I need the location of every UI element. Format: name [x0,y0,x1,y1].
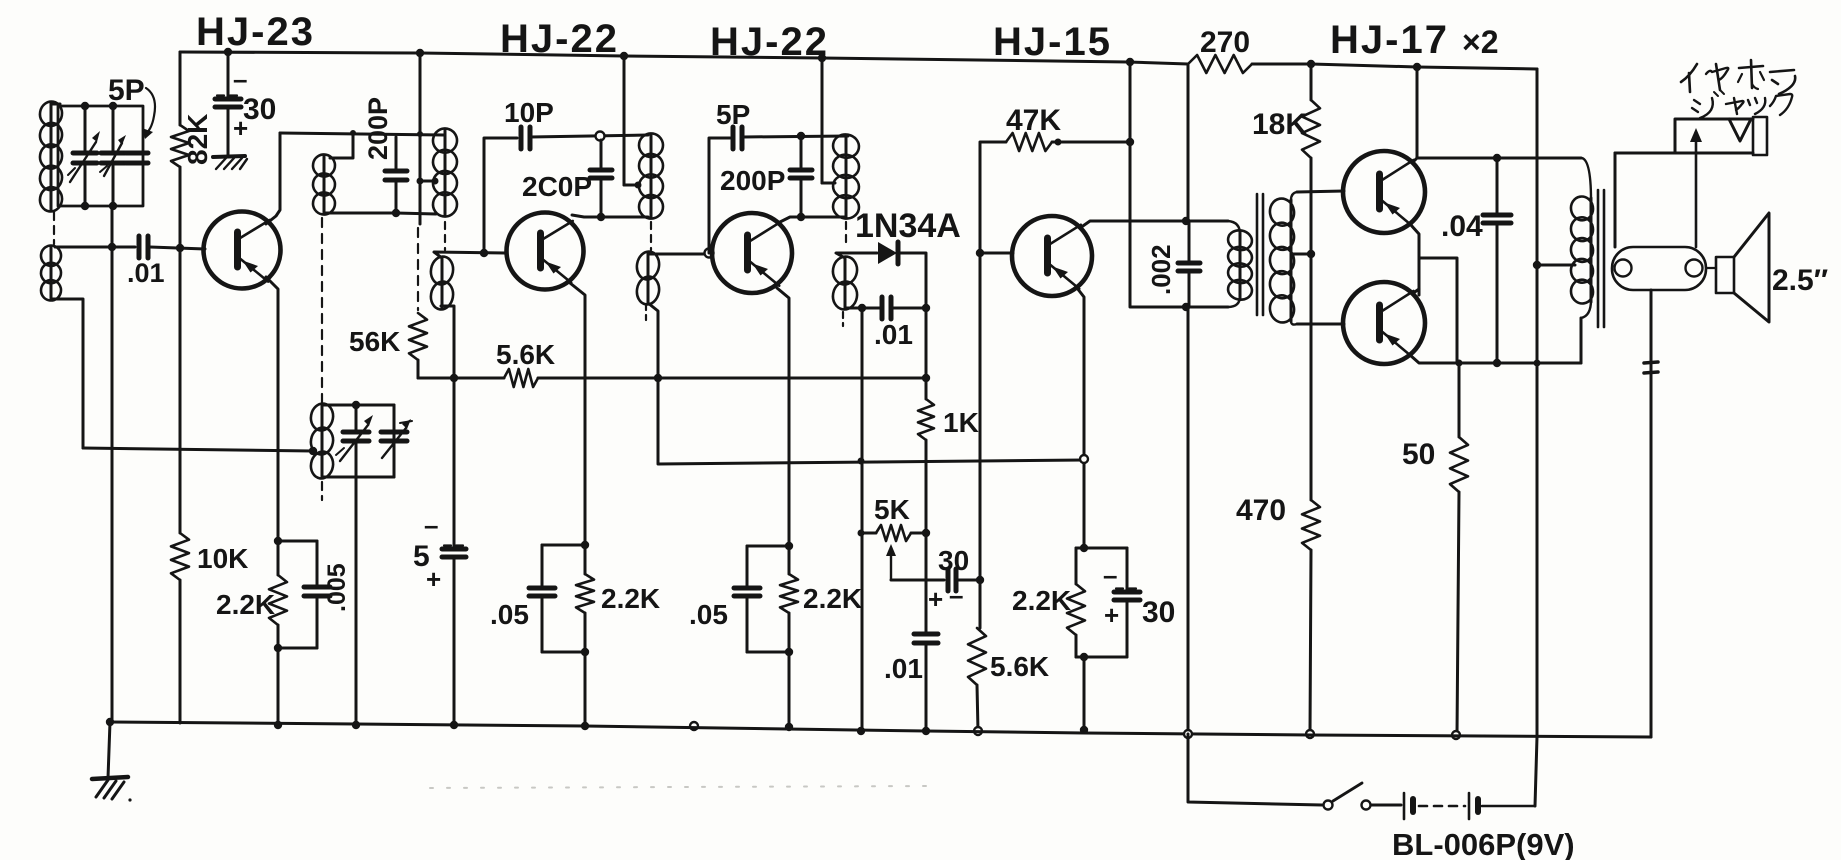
wire T4 base line down [979,580,982,628]
wire det return down [861,308,864,731]
node bracket1 top [274,537,282,545]
label 1K [943,407,979,438]
wire B line vertical [1536,69,1539,737]
wire Q6 collector up [1412,289,1419,294]
resistor R3 2.2K [269,541,287,648]
IFT2 below dashes [645,304,647,320]
variable capacitor VC3 [343,405,369,477]
svg-text:2.5″: 2.5″ [1772,264,1828,297]
speaker driver box [1716,257,1734,293]
wire 10K to bottom rail [179,580,182,723]
label 47K [1006,104,1061,137]
label .002 rotated [1146,244,1176,295]
svg-text:200P: 200P [720,165,785,196]
label HJ-17x2 [1330,18,1498,62]
transistor T3 HJ-22 [712,213,792,293]
label 82K rotated [182,114,213,165]
ring 470 rail [1306,730,1314,738]
label .01 C12 [874,319,913,350]
wire bracket1 to rail [277,648,280,725]
wire ground stem [108,722,110,778]
svg-text:.04: .04 [1441,210,1483,243]
resistor R4 56K [409,313,427,360]
svg-text:–: – [424,510,438,540]
svg-text:2.2K: 2.2K [803,583,862,614]
svg-text:+: + [1104,600,1119,630]
wire 5P to IFT3 top [743,136,848,137]
label plus C15 [1104,600,1119,630]
svg-text:1N34A: 1N34A [855,207,961,245]
label 200P C10 [720,165,785,196]
label HJ-23 [196,10,315,54]
ring junction T3 base 5P node [705,249,714,258]
svg-text:–: – [233,64,247,94]
resistor R8 1K [918,378,934,440]
node volume ground [857,727,865,735]
label 50 [1402,438,1435,471]
wire T2 collector to IFT2 [572,215,648,217]
wire T3 collector to IFT3 [780,217,845,222]
node bracket4 bottom [1080,653,1088,661]
label minus C15 [1103,560,1117,590]
label minus C5 [424,510,438,540]
svg-text:HJ-22: HJ-22 [710,20,829,64]
battery BT1 BL-006P [1404,793,1535,819]
svg-text:10K: 10K [197,543,248,574]
variable capacitor VC4 [381,432,407,441]
transistor T4 HJ-15 [1012,216,1092,296]
node rail Q5 [1413,63,1421,71]
label 10P [504,97,554,128]
svg-text:200P: 200P [363,97,393,160]
wire rail to 18K [1310,64,1313,100]
capacitor C6 10P [521,127,530,149]
node rail IFT3 [818,54,826,62]
wire 47K to supply line [1052,141,1130,144]
node C10 bottom [797,213,805,221]
capacitor C14 .01 inline [914,533,938,731]
wire collector top horizontal [280,133,444,135]
label 2.5 inch [1772,264,1828,297]
node bracket4 rail [1080,726,1088,734]
svg-text:2.2K: 2.2K [1012,585,1071,616]
oscillator coil L4 [309,402,335,480]
wire Q5 collector up [1412,67,1417,163]
node C10 top [797,132,805,140]
label plus C13 [928,584,943,614]
capacitor C9 5P [733,127,742,149]
output transformer secondary [1612,247,1706,290]
node bracket3 top [785,542,793,550]
label 470 [1236,494,1286,527]
svg-text:30: 30 [1142,596,1175,629]
wire T4 collector up [1080,221,1228,228]
label 270 [1200,26,1250,59]
wire IFT2 sec bottom down [648,303,658,378]
svg-text:5K: 5K [874,494,910,525]
wire jog down to osc feedback coil [330,133,353,158]
wire IFT2 sec top to T3 base [648,253,712,256]
wire secondary top to Q5 base [1297,191,1344,192]
ring emitter mid junction [1080,455,1088,463]
svg-text:HJ-17: HJ-17 [1330,18,1449,62]
ring 50 rail [1452,731,1460,739]
node bracket2 top [581,541,589,549]
wire bottom rail [110,722,1651,737]
wire AGC rail right part [538,377,927,380]
node rail IFT1 [416,49,424,57]
label .05 C8 [490,599,529,630]
wire T2 emitter down [570,283,585,545]
node IFT1 tap [417,178,439,185]
IFT1 primary coil [431,127,459,219]
variable capacitor VC4 arrow [382,419,412,458]
driver transformer core [1257,194,1263,315]
wire secondary to speaker link [1706,267,1716,269]
wire C5 to rail [453,559,456,725]
wire diode to corner [900,253,926,308]
svg-text:–: – [949,580,963,610]
label jack katakana [1692,90,1792,118]
wire T4 base line down2 [979,253,982,580]
wire battery branch below rail [1188,734,1322,805]
node emitter B line [1534,360,1541,367]
wire T2 base up [484,138,517,253]
IFT2 secondary coil [635,250,662,306]
antenna coil L1 primary [38,100,64,213]
node center tap 18K line [1307,250,1315,258]
IFT2 primary coil [637,131,665,220]
wire B line battery [1535,737,1537,806]
node bracket4 top [1080,544,1088,552]
driver transformer T5 secondary [1268,192,1297,325]
wire osc tap horizontal [83,448,313,451]
wire Q5 emitter down [1410,224,1419,295]
label minus C2 [233,64,247,94]
label plus C5 [426,564,441,594]
node pot left [858,530,865,537]
wire 470 to rail [1310,550,1311,734]
svg-text:2C0P: 2C0P [522,171,592,202]
node C5 rail [450,721,458,729]
emitter bracket4 bottom [1076,656,1127,659]
speaker return tick marks [1644,362,1658,373]
osc tank box bottom [322,476,394,479]
label 18K [1252,108,1307,141]
node det bottom right [922,304,930,312]
earphone jack tip contact [1729,119,1751,141]
label HJ-22 second [710,20,829,64]
node IFT2 tap [635,182,642,189]
wire 5P branch [709,138,730,253]
IFT1 secondary coil [429,255,456,311]
label 2.2K R6 [601,583,660,614]
resistor R13 470 [1302,500,1320,550]
capacitor C5 5 electrolytic [442,546,466,558]
dashed gang tail below osc coil [321,482,323,500]
node C17 top [1493,154,1501,162]
wire speaker return down [1650,290,1653,737]
wire jack to secondary left [1614,153,1617,247]
node 200P bottom [392,209,400,217]
svg-text:.05: .05 [689,599,728,630]
emitter bracket1 bottom [278,647,317,650]
wire battery branch down [1187,64,1190,221]
label 2.2K R3 [216,589,275,620]
svg-text:.002: .002 [1146,244,1176,295]
label 5.6K R9 [990,651,1049,682]
svg-text:82K: 82K [182,114,213,165]
wire AGC rail horizontal [418,377,504,380]
capacitor C10 200P [790,136,812,217]
capacitor C3 200P [385,137,407,213]
node antenna ground leg junction [108,243,116,251]
label 56K [349,326,400,357]
wire L2 bottom to down lead [51,299,83,448]
svg-text:50: 50 [1402,438,1435,471]
resistor R11 2.2K [1067,548,1085,657]
emitter bracket2 bottom [542,651,585,654]
resistor 270 inline [1188,55,1252,73]
wire C13 to T4 base line [957,579,980,582]
node 47K tick [1055,139,1062,146]
node T5 primary bottom cap [1182,303,1190,311]
wire antenna secondary to C1 [55,246,135,249]
label 5.6K R5 [496,339,555,370]
svg-text:2.2K: 2.2K [216,589,275,620]
node sec2 AGC [654,374,662,382]
node AGC rail right end [922,374,930,382]
svg-text:56K: 56K [349,326,400,357]
node rail supply line [1126,58,1134,66]
wire tap down to 470 [1310,254,1313,500]
resistor R6 2.2K [576,545,594,652]
node VC3 top [352,401,360,409]
capacitor C17 .04 [1483,158,1511,363]
tuning box frame [58,106,143,206]
node bracket1 bottom [274,644,282,652]
label .05 C11 [689,599,728,630]
transistor T1 HJ-23 [204,212,281,289]
label 200P C7 [522,171,592,202]
wire emitter link to down lead [1419,258,1457,363]
node pot right [922,529,930,537]
capacitor C7 200P [590,140,612,217]
wire T1 emitter down [266,277,278,541]
label 30 C2 [243,93,276,126]
node T5 primary top cap [1182,217,1190,225]
transistor Q5 HJ-17 [1343,151,1425,233]
capacitor C8 .05 [529,545,555,652]
node det return volume [858,458,865,465]
wire R9 to rail [977,685,978,731]
wire bracket4 to rail [1083,657,1086,730]
svg-text:BL-006P(9V): BL-006P(9V) [1392,827,1575,860]
label 5 C5 [413,540,430,573]
IFT3 tap wire [822,182,835,185]
svg-text:18K: 18K [1252,108,1307,141]
trimmer capacitor 5P plates [126,153,148,163]
wire to IFT1 bottom [396,213,436,214]
label 10K [197,543,248,574]
ground symbol C2 [213,156,247,169]
transistor T2 HJ-22 [507,213,584,290]
node bracket2 rail [581,722,589,730]
curved arrow by 5P [142,88,155,139]
label BL-006P 9V [1392,827,1575,860]
label plus C2 [233,113,248,143]
resistor R12 18K [1302,100,1320,158]
IFT2 tap wire [624,184,639,187]
label HJ-15 [993,20,1112,64]
node rail C2 [224,48,232,56]
node supply 47K [1126,138,1134,146]
svg-text:.005: .005 [323,563,351,612]
wire T1 collector up [266,133,280,224]
wire center tap output [1537,264,1575,267]
capacitor C16 .002 [1178,221,1200,307]
wire IFT1 sec top to T2 base [434,252,505,258]
wire 47K left corner [980,142,1006,253]
wire top supply rail [180,52,1188,64]
svg-text:.05: .05 [490,599,529,630]
resistor R9 5.6K [968,628,986,685]
wire 82K to base node [179,167,182,248]
capacitor C11 .05 [734,546,760,652]
svg-text:10P: 10P [504,97,554,128]
svg-text:5.6K: 5.6K [496,339,555,370]
wire base node down to 10K [179,248,182,533]
svg-text:.01: .01 [127,258,165,288]
svg-text:.01: .01 [874,319,913,350]
node emitter C17 [1493,359,1501,367]
node bracket1 rail [274,721,282,729]
jack arrow plug [1690,128,1702,247]
node sec1 AGC [450,374,458,382]
node rail IFT2 [620,52,628,60]
node C7 bottom [597,213,605,221]
wire top rail right [1252,64,1537,69]
label 30 C13 [938,545,969,576]
variable capacitor VC2 plates [101,106,125,206]
wire battery branch down2 [1187,307,1190,734]
svg-text:30: 30 [938,545,969,576]
node bracket2 bottom [581,648,589,656]
wire T4 emitter down [1077,288,1084,548]
IFT1 shield dashes left [417,228,419,310]
wire vertical antenna ground leg [111,206,114,722]
ground symbol main [92,777,132,802]
variable capacitor VC3 arrow [336,415,373,461]
node base bias junction [176,244,184,252]
emitter bracket3 bottom [747,651,789,654]
junction dots tuning box [81,102,117,210]
capacitor C13 30 [948,569,956,591]
wire rail to IFT1 line [419,53,422,224]
output transformer core [1598,190,1604,327]
potentiometer 5K [861,525,926,541]
capacitor C2 30 electrolytic [215,96,241,108]
ring R9 rail [974,727,982,735]
scan artifact dots [430,786,935,788]
output transformer T6 primary [1569,158,1595,363]
label 30 C15 [1142,596,1175,629]
IFT2 core dashes [650,222,652,250]
svg-text:2.2K: 2.2K [601,583,660,614]
variable capacitor VC1 plates [73,106,97,206]
svg-text:470: 470 [1236,494,1286,527]
wire IFT3 sec top to diode [836,253,877,258]
label 5K [874,494,910,525]
label .01 C1 [127,258,165,288]
node bracket3 bottom [785,648,793,656]
node IFT1 top cross [417,131,423,137]
resistor 82K [171,125,189,167]
wire Q6 emitter [1410,355,1581,363]
wire secondary center tap [1291,253,1311,256]
osc tank box right [393,405,396,477]
transistor Q6 HJ-17 [1343,282,1425,364]
wire det down to AGC rail [925,308,928,378]
wire antenna top to box [51,103,60,106]
wire bracket3 to rail [788,652,791,727]
emitter bracket3 top [747,545,789,548]
wire supply line down [1130,62,1186,307]
node T2 base junction [480,249,488,257]
label earphone katakana [1681,60,1795,94]
wire rail to C2 30 [227,52,230,97]
wire C1 to T1 base [150,247,205,249]
wire IFT3 sec bottom [845,307,860,310]
node osc tap [309,447,317,455]
node bracket3 rail [785,723,793,731]
label 2.2K R11 [1012,585,1071,616]
svg-text:×2: ×2 [1462,24,1498,60]
antenna coupling coil L2 [39,244,62,302]
capacitor C1 .01 [139,236,148,258]
svg-text:+: + [426,564,441,594]
label .01 C14 [884,653,923,684]
resistor R5 5.6K [504,369,538,387]
wire sec1 down to C5 [453,378,456,546]
diode D1 1N34A [878,242,898,264]
label HJ-22 first [500,17,619,61]
wire 50 to rail [1457,492,1459,735]
capacitor C15 30 electrolytic [1114,548,1140,657]
wire C2 to ground [227,109,230,156]
wire wiper to C13 [891,579,944,582]
wire 10P to IFT2 top [530,135,648,137]
wire primary bottom [1186,306,1228,309]
label 200P C3 rotated [363,97,393,160]
wire emitter line to 50 [1458,363,1461,437]
label .04 C17 [1441,210,1483,243]
svg-text:+: + [928,584,943,614]
IFT1 core dashes [444,222,446,250]
label 5P antenna [108,74,145,107]
emitter bracket4 top [1076,547,1127,550]
ring stray junction rail [690,722,698,730]
IFT1 tap wire [420,180,436,183]
resistor R7 2.2K [780,546,798,652]
svg-text:HJ-23: HJ-23 [196,10,315,54]
label .005 rotated [323,563,351,612]
node 50 emitter line [1456,360,1463,367]
svg-text:47K: 47K [1006,104,1061,137]
wire 56K to AGC rail [417,360,420,378]
node collector top corner [350,130,356,136]
svg-text:HJ-22: HJ-22 [500,17,619,61]
